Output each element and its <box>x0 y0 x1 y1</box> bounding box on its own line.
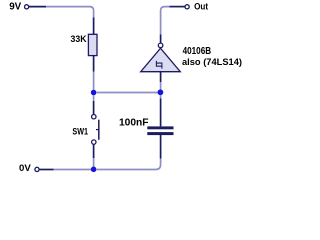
svg-text:9V: 9V <box>9 2 21 13</box>
pin inverter input <box>160 72 162 83</box>
svg-text:SW1: SW1 <box>72 126 88 137</box>
pin inverter output <box>160 35 162 44</box>
wire switch to node C <box>93 158 95 167</box>
switch SW1 actuator bar <box>98 120 100 140</box>
wire bottom rail to capacitor <box>96 159 161 170</box>
pin resistor top <box>93 18 95 35</box>
terminal Out <box>185 5 189 9</box>
wire 9V stub dark <box>29 6 46 8</box>
terminal 9V <box>25 5 29 9</box>
wire node A to switch <box>93 95 95 101</box>
pin switch bottom <box>93 144 95 158</box>
svg-text:0V: 0V <box>19 163 31 174</box>
wire middle rail <box>96 92 158 94</box>
wire top-left lavender <box>46 7 94 18</box>
svg-text:33K: 33K <box>71 34 87 45</box>
node A junction <box>91 90 97 96</box>
pin capacitor bottom <box>160 135 162 159</box>
hysteresis symbol part 1 <box>156 61 162 66</box>
svg-text:also (74LS14): also (74LS14) <box>182 57 242 68</box>
inverter output bubble <box>158 43 163 48</box>
pin switch top <box>93 101 95 114</box>
switch SW1 bottom contact <box>92 140 96 144</box>
svg-text:Out: Out <box>194 2 209 13</box>
wire node B to inverter input <box>160 82 162 90</box>
terminal 0V <box>35 167 39 171</box>
svg-text:40106B: 40106B <box>183 46 212 57</box>
node C junction <box>91 167 97 173</box>
wire 0V rail lavender <box>54 169 92 171</box>
wire resistor to node A <box>93 72 95 91</box>
switch SW1 actuator tick <box>96 129 99 131</box>
wire Out stub dark <box>170 6 185 8</box>
op-amp U1 inverter triangle <box>141 48 181 71</box>
resistor R1 33K body <box>88 34 97 55</box>
capacitor C1 bottom plate <box>147 132 173 135</box>
wire output to Out corner <box>161 7 170 35</box>
wire capacitor to node B <box>160 95 162 99</box>
hysteresis symbol part 2 <box>156 63 162 69</box>
switch SW1 top contact <box>92 115 96 119</box>
wire 0V stub dark <box>39 169 53 171</box>
pin resistor bottom <box>93 56 95 72</box>
pin capacitor top <box>160 99 162 127</box>
svg-text:100nF: 100nF <box>119 118 149 129</box>
node B junction <box>158 89 164 95</box>
capacitor C1 top plate <box>147 126 173 129</box>
